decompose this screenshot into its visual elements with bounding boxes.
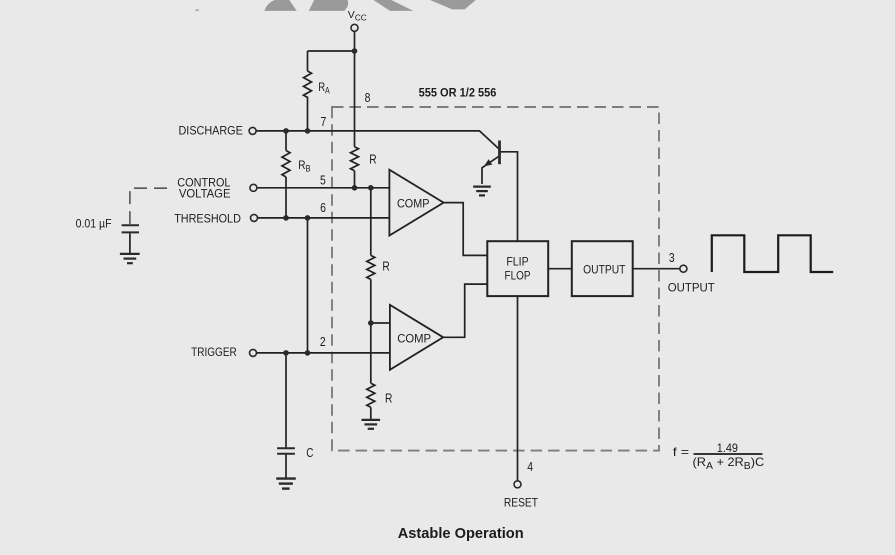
svg-text:R: R — [369, 151, 376, 166]
svg-text:8: 8 — [365, 91, 371, 105]
svg-text:THRESHOLD: THRESHOLD — [174, 212, 241, 226]
watermark shape A — [264, 0, 296, 11]
svg-text:7: 7 — [321, 115, 327, 129]
svg-text:R: R — [385, 391, 392, 406]
formula f = 1.49 / ((RA + 2RB)C) — [673, 441, 765, 472]
watermark speck — [196, 9, 199, 11]
wire comp2 reference input — [371, 322, 390, 324]
op-amp U1 COMP (threshold comparator) — [389, 170, 443, 236]
terminal VCC — [351, 24, 358, 31]
svg-text:FLIP: FLIP — [506, 254, 528, 268]
wire comp1 output to flip flop — [444, 203, 488, 256]
capacitor 0.01uF bottom lead — [129, 233, 131, 253]
node junction threshold/RB — [283, 215, 289, 221]
node junction trigger/capacitor — [283, 350, 289, 356]
node junction discharge/RB — [283, 128, 289, 134]
resistor R3 (divider bottom) — [367, 383, 375, 407]
svg-text:0.01 µF: 0.01 µF — [76, 216, 112, 230]
terminal TRIGGER pin 2 — [250, 349, 257, 356]
svg-text:VOLTAGE: VOLTAGE — [179, 187, 231, 201]
svg-text:FLOP: FLOP — [505, 269, 531, 283]
wire DISCHARGE line — [256, 131, 499, 149]
resistor RB — [282, 151, 290, 177]
node junction CV/divider top — [352, 185, 358, 191]
wire RESET from flip flop — [517, 296, 519, 481]
node junction comp2 reference — [368, 320, 374, 326]
ground (divider R3) — [362, 420, 381, 429]
transistor Q1 emitter wire — [482, 156, 499, 184]
svg-text:5: 5 — [320, 174, 326, 188]
wire CONTROL VOLTAGE line — [257, 187, 390, 189]
wire TRIGGER line — [256, 352, 390, 354]
node junction VCC/RA — [352, 48, 358, 54]
wire R2 top lead — [370, 188, 372, 256]
ground (0.01uF capacitor) — [120, 254, 140, 263]
svg-text:555 OR 1/2 556: 555 OR 1/2 556 — [419, 86, 497, 100]
capacitor C bottom lead to ground — [285, 455, 287, 478]
svg-text:4: 4 — [527, 460, 533, 474]
wire THRESHOLD line — [257, 217, 389, 219]
svg-text:COMP: COMP — [397, 331, 431, 345]
svg-text:6: 6 — [320, 201, 326, 215]
wire threshold-to-trigger vertical — [307, 218, 309, 353]
resistor RA — [304, 71, 312, 98]
wire VCC stem — [354, 31, 356, 147]
wire RA bottom lead — [307, 97, 309, 131]
wire flip flop to output block — [548, 268, 572, 270]
svg-text:COMP: COMP — [397, 196, 429, 210]
terminal CONTROL VOLTAGE pin 5 — [250, 184, 257, 191]
wire trigger to capacitor C — [285, 353, 287, 448]
wire RB bottom lead — [285, 177, 287, 218]
capacitor 0.01uF plates — [122, 225, 139, 232]
svg-text:2: 2 — [320, 335, 326, 349]
svg-text:3: 3 — [669, 251, 675, 265]
svg-text:f =: f = — [673, 445, 689, 459]
svg-text:TRIGGER: TRIGGER — [191, 345, 237, 359]
ground (capacitor C) — [276, 479, 296, 489]
wire R2 bottom lead to comp2 node — [370, 279, 372, 383]
watermark shape B — [309, 0, 348, 11]
svg-text:1.49: 1.49 — [717, 441, 738, 455]
node junction discharge/RA — [305, 128, 311, 134]
transistor Q1 base wire handled above; collector wire — [500, 152, 518, 241]
svg-text:DISCHARGE: DISCHARGE — [179, 124, 243, 138]
terminal OUTPUT pin 3 — [680, 265, 687, 272]
resistor R2 (divider middle) — [367, 255, 375, 279]
svg-text:OUTPUT: OUTPUT — [583, 263, 626, 277]
wire R3 to ground — [370, 407, 372, 419]
wire RA top lead — [307, 51, 309, 71]
node junction CV/divider middle — [368, 185, 374, 191]
flip flop block — [487, 241, 548, 296]
wire VCC to RA branch — [308, 50, 355, 52]
watermark shape C — [373, 0, 413, 11]
transistor Q1 base bar — [498, 141, 501, 165]
svg-text:RESET: RESET — [504, 495, 538, 509]
terminal DISCHARGE pin 7 — [249, 127, 256, 134]
svg-text:R: R — [382, 259, 389, 274]
capacitor C plates — [277, 448, 295, 453]
wire R1 bottom lead — [354, 171, 356, 188]
dashed IC boundary box 555 — [332, 107, 659, 451]
svg-text:C: C — [306, 445, 313, 460]
wire comp2 output to flip flop — [443, 284, 487, 337]
output block — [572, 241, 633, 296]
wire output block to pin 3 terminal — [633, 268, 681, 270]
resistor R1 (divider top) — [351, 147, 359, 171]
svg-text:OUTPUT: OUTPUT — [668, 281, 716, 295]
watermark shape D — [430, 0, 476, 9]
node junction threshold/vertical — [305, 215, 311, 221]
node junction trigger/vertical — [305, 350, 311, 356]
svg-text:Astable Operation: Astable Operation — [398, 525, 524, 542]
terminal THRESHOLD pin 6 — [251, 214, 258, 221]
output square wave — [712, 235, 833, 272]
op-amp U2 COMP (trigger comparator) — [390, 305, 443, 370]
dashed wire 0.01uF to control voltage — [130, 188, 168, 224]
terminal RESET pin 4 — [514, 481, 521, 488]
ground (transistor emitter) — [473, 187, 491, 196]
transistor Q1 emitter arrow — [484, 159, 492, 166]
wire RB top lead — [285, 131, 287, 151]
